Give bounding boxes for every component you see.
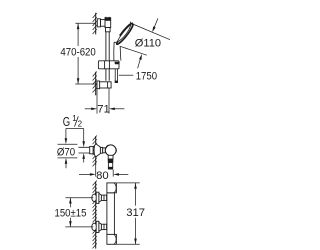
svg-text:Ø110: Ø110 bbox=[135, 38, 161, 50]
wall hatching (bottom bracket) bbox=[93, 72, 97, 93]
svg-text:2: 2 bbox=[78, 120, 83, 129]
dim Ø70 bottom arrow bbox=[65, 153, 85, 168]
dim 470-620 extension line top bbox=[75, 22, 95, 24]
svg-text:80: 80 bbox=[96, 170, 109, 182]
svg-text:G: G bbox=[63, 115, 70, 129]
hose cut end bbox=[115, 81, 118, 83]
svg-text:150±15: 150±15 bbox=[55, 207, 87, 219]
union (top view, lower) bbox=[92, 221, 107, 232]
top rail bracket bbox=[97, 18, 110, 32]
wall hatching (top bracket) bbox=[93, 13, 97, 34]
svg-text:1750: 1750 bbox=[136, 70, 157, 82]
dim 470-620 line + arrows bbox=[77, 23, 80, 84]
escutcheon (side view) bbox=[94, 144, 100, 157]
wall (thermostat top view) bbox=[95, 182, 97, 249]
handle (bottom) bbox=[107, 234, 117, 244]
dim Ø70 extension lines bbox=[58, 144, 78, 158]
label 1750 leader bbox=[119, 74, 134, 76]
pipe fitting box bbox=[90, 146, 93, 153]
svg-text:71: 71 bbox=[97, 104, 110, 116]
dim 150±15 extension lines bbox=[65, 198, 93, 227]
dim 317 extension lines bbox=[117, 183, 140, 244]
wall (top bracket) bbox=[95, 13, 97, 35]
wall (thermostat side view) bbox=[95, 136, 97, 165]
thermostat body (side view circle) bbox=[105, 145, 116, 156]
bottom rail bracket bbox=[97, 81, 111, 89]
dim 150±15 line + arrows bbox=[69, 198, 72, 227]
svg-text:470-620: 470-620 bbox=[60, 46, 95, 58]
dim 71 extension lines bbox=[97, 88, 109, 113]
svg-text:Ø70: Ø70 bbox=[57, 147, 75, 159]
hand shower head bbox=[114, 22, 135, 46]
dim Ø110 arrows bbox=[138, 18, 158, 68]
supply pipe in wall bbox=[79, 147, 96, 153]
wall hatching (top view) bbox=[93, 181, 97, 249]
wall (bottom bracket) bbox=[95, 72, 97, 96]
union (top view, upper) bbox=[92, 192, 107, 203]
thermostat body (top view) bbox=[107, 193, 115, 235]
dim 80 arrows bbox=[79, 173, 128, 176]
svg-text:317: 317 bbox=[126, 207, 145, 219]
shower hose bbox=[115, 69, 117, 82]
dim 470-620 extension line bottom bbox=[75, 83, 97, 85]
dim 71 arrows bbox=[85, 108, 125, 111]
dim 80 extension lines bbox=[96, 165, 114, 176]
dim 317 line + arrows bbox=[134, 183, 137, 244]
wall hatching (side view) bbox=[93, 136, 97, 167]
glide holder on rail bbox=[98, 61, 119, 69]
label G1/2 leader + arrows bbox=[65, 129, 85, 148]
slide rail bbox=[106, 17, 109, 81]
dim Ø110 extension lines bbox=[120, 24, 170, 56]
shower handle bbox=[113, 42, 115, 60]
shower outlet stack bbox=[108, 155, 114, 169]
handle (top) bbox=[107, 183, 117, 193]
union nuts (side view) bbox=[100, 147, 102, 153]
